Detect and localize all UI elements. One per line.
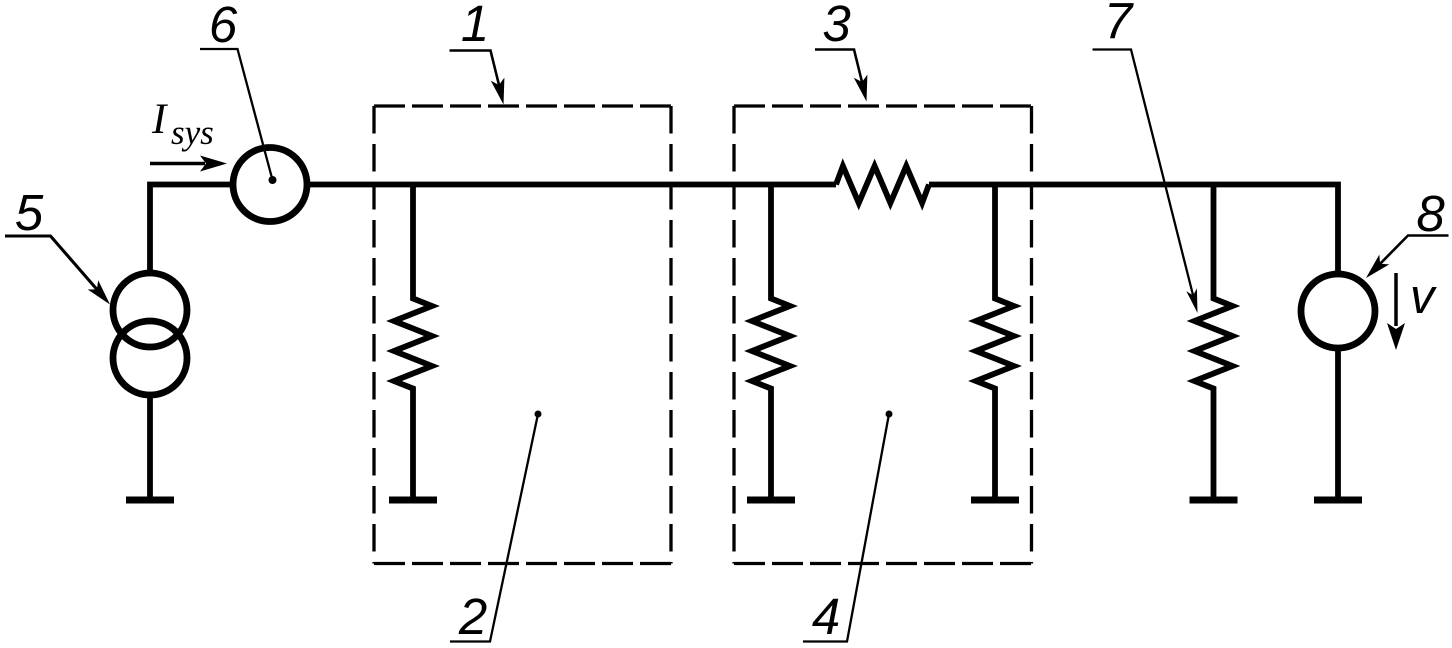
- ammeter 6 center dot: [269, 176, 277, 184]
- wire: series resistor to right corner down to source 8: [929, 185, 1338, 274]
- svg-text:4: 4: [812, 588, 840, 645]
- ground under source 8: [1314, 497, 1362, 504]
- wire: ammeter 6 to series resistor in box 3: [307, 182, 836, 188]
- svg-text:6: 6: [209, 0, 238, 53]
- wire: source 8 bottom lead: [1335, 348, 1341, 500]
- leader of label 8 (arrow to source 8): [1380, 236, 1448, 264]
- svg-text:v: v: [1410, 270, 1437, 324]
- dashed box 1: [374, 106, 671, 564]
- resistor 2 (shunt inside box 1): [394, 182, 432, 500]
- wire: source 5 bottom lead: [147, 395, 153, 500]
- leader of label 6 (thin line to meter center dot): [200, 49, 273, 180]
- svg-text:5: 5: [15, 184, 44, 241]
- dashed box 3: [734, 106, 1032, 564]
- resistor 4a (left shunt inside box 3): [752, 182, 790, 500]
- resistor 7: [1195, 182, 1233, 500]
- svg-text:1: 1: [461, 0, 489, 52]
- ground under source 5: [126, 497, 174, 504]
- svg-text:2: 2: [458, 588, 487, 645]
- arrow for Isys current direction: [150, 162, 205, 166]
- leader of label 5 (arrow to source 5): [5, 236, 97, 289]
- voltage source 8 circle: [1301, 274, 1375, 348]
- svg-text:7: 7: [1104, 0, 1134, 50]
- ground under resistor 7: [1190, 497, 1238, 504]
- resistor 4c (right shunt inside box 3): [976, 182, 1014, 500]
- svg-text:8: 8: [1416, 185, 1445, 242]
- svg-text:sys: sys: [171, 113, 214, 152]
- ground under resistor 2: [389, 497, 437, 504]
- leader of label 7 (arrow to resistor 7): [1093, 50, 1194, 296]
- svg-text:I: I: [151, 96, 168, 143]
- ground under resistor 4c: [971, 497, 1019, 504]
- leader of label 1: [450, 51, 500, 86]
- svg-text:3: 3: [822, 0, 850, 52]
- leader of label 3: [815, 50, 862, 83]
- resistor 4b (series, inside box 3): [836, 166, 929, 203]
- arrow for V polarity: [1394, 273, 1398, 326]
- ammeter 6 (circle meter symbol): [233, 148, 307, 222]
- ground under resistor 4a: [747, 497, 795, 504]
- leader of label 4 (line to dot inside box 3): [803, 414, 889, 642]
- leader of label 2 (line to dot inside box 1): [450, 414, 538, 642]
- wire: left corner from source 5 up to ammeter 6: [150, 185, 233, 273]
- current source 5 (two overlapping circles): [113, 273, 187, 347]
